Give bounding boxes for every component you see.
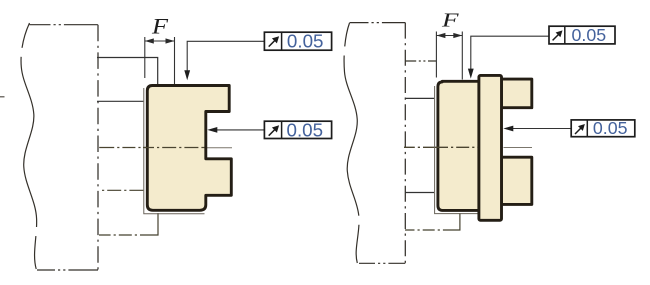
svg-text:F: F [441, 9, 460, 31]
svg-text:0.05: 0.05 [571, 25, 606, 45]
svg-text:0.05: 0.05 [287, 31, 324, 52]
svg-text:0.05: 0.05 [287, 119, 324, 140]
svg-text:F: F [151, 14, 169, 39]
svg-text:0.05: 0.05 [593, 118, 628, 138]
